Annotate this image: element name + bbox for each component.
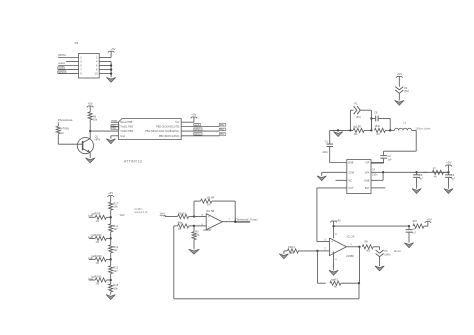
svg-text:PB2 (SCK/ADC1/T0): PB2 (SCK/ADC1/T0) [156,126,179,129]
svg-text:ISP: ISP [366,162,370,165]
svg-text:PB0 (MOSI ADV0): PB0 (MOSI ADV0) [159,135,180,138]
wire rail left corner [330,129,351,131]
svg-text:OUT: OUT [348,187,354,190]
junction pin8 [110,68,112,70]
ground -in src [279,254,288,259]
svg-text:Motor: Motor [394,249,401,253]
svg-text:Photodiode: Photodiode [58,118,73,122]
resistor R11 [109,217,119,238]
ground emitter [86,158,95,163]
ground V- [329,270,338,275]
svg-text:SCK: SCK [58,67,63,70]
ground COM [317,176,326,181]
wire PB2 SCK [181,126,219,128]
svg-text:ENB: ENB [364,179,369,182]
wire pin5 reset [58,65,78,67]
svg-text:10k R4: 10k R4 [206,197,215,200]
svg-text:NC: NC [348,179,352,182]
inductor L1 [390,121,411,131]
ground connector [107,77,116,82]
svg-text:(5V): (5V) [404,89,409,93]
wire gnd bus [110,62,112,78]
wire ISP pin [371,162,384,164]
svg-text:P1: P1 [354,101,358,105]
power +5V connector [108,47,116,52]
resistor R4 47k [201,197,236,207]
power +5V op-amp [330,219,341,227]
junction pin6 [110,64,112,66]
connector P4 body [79,53,100,78]
capacitor C5 4u7 [413,172,424,188]
wire P2 drop [398,76,400,86]
ground C6 [444,189,453,194]
wire PB1 MISO [181,130,219,132]
wire C3 branch [371,119,375,131]
ground ladder [106,295,115,300]
wire pin6 [99,65,111,67]
ground P3 [375,266,384,271]
junction +in [193,215,195,217]
wire output [222,221,250,223]
power +5V ladder [107,191,114,197]
svg-text:10k: 10k [93,117,98,121]
junction node2 [110,237,112,239]
svg-text:PB1: PB1 [220,128,225,131]
resistor R8 400 [360,241,380,253]
wire Gnd pin [111,136,119,139]
svg-text:R6a: R6a [178,222,183,225]
svg-text:4u7: 4u7 [419,177,424,180]
pin names right [145,121,180,138]
resistor R9 tap [89,213,111,223]
svg-text:ladR R9: ladR R9 [92,213,101,216]
svg-text:Reset PB5: Reset PB5 [120,121,133,124]
wire OUT pin [317,188,347,242]
svg-text:VT93N: VT93N [61,126,69,130]
svg-text:MISO: MISO [58,71,64,74]
power +5V VFB [445,161,452,173]
svg-text:+: + [331,240,333,244]
power +5V Vcc [191,113,198,119]
wire NC stub [336,179,347,181]
note divider [135,208,148,214]
wire +5V to R5 [89,106,91,112]
resistor R18 10k [109,280,119,295]
svg-text:PB0: PB0 [220,133,225,136]
net flag Lvl1 [88,277,93,280]
wire to P3 [379,247,381,250]
svg-text:+5V: +5V [427,217,432,221]
label MOSI [58,53,66,57]
wire +in from OUT [317,241,330,243]
svg-text:ladR R10: ladR R10 [92,234,103,237]
junction R1 R2 [370,129,372,131]
svg-text:Lvl3: Lvl3 [88,236,93,239]
resistor R14 4k7 [287,246,317,255]
svg-text:VFK: VFK [365,171,370,174]
wire ladder top [110,196,112,203]
wire PB3 pin [111,126,119,128]
svg-text:IC1 5B: IC1 5B [206,209,214,213]
wire C1 to pin1 [330,162,347,164]
wire Vref to R3 [165,216,172,218]
svg-text:Lvl4: Lvl4 [88,215,93,218]
svg-text:ATTINY13: ATTINY13 [124,159,142,164]
resistor R3 10k [172,212,194,218]
wire PB4 pin [90,130,118,132]
svg-text:0q0.5R: 0q0.5R [353,126,361,129]
IC U2 body [347,160,371,194]
svg-text:ENB: ENB [348,162,353,165]
wire Vcc pin [181,117,194,122]
svg-text:400: 400 [366,250,371,253]
junction C3 left [370,117,372,119]
svg-text:MOSI: MOSI [194,133,200,136]
label MOSI net [194,133,202,136]
net flag Lvl3 [88,236,93,239]
label MISO net [194,128,202,131]
resistor R10 tap [89,234,111,244]
svg-text:IC1.2A: IC1.2A [347,234,355,238]
net flag SCK [58,67,64,70]
ground rail [334,132,343,137]
label SCK net [194,123,201,126]
op-amp IC1A [324,234,354,261]
svg-text:4k7: 4k7 [113,269,118,273]
junction node4 [110,279,112,281]
wire to node1 [110,210,112,217]
svg-text:+5V: +5V [108,191,113,195]
junction C7 [408,225,410,227]
op-amp IC1B [202,209,231,232]
wire rail down C1 [329,130,331,144]
junction V+ [332,225,334,227]
junction ENB tie [382,171,384,173]
transistor Q1 NPN [77,131,100,158]
svg-text:(24V): (24V) [384,253,390,256]
junction pin10 [110,72,112,74]
resistor R6 10k [178,222,194,231]
svg-text:reset: reset [111,118,117,122]
wire R5 to collector [89,120,91,131]
connector P4 designator [75,41,79,45]
label ATTINY13 [124,159,142,164]
svg-text:−: − [331,250,333,254]
svg-text:NPN: NPN [95,137,101,141]
net flag MISO [58,71,66,74]
svg-text:10k R3: 10k R3 [178,212,187,215]
resistor R12 [109,238,119,259]
wire VFB rail [371,171,449,173]
junction -in [316,250,318,252]
net flag Lvl2 [88,257,93,260]
wire V+ rail [334,225,409,227]
svg-text:P4: P4 [75,41,79,45]
junction node3 [110,258,112,260]
resistor R2 0.05R [374,125,390,136]
junction C5 [415,171,417,173]
power +5V P2 [396,72,403,78]
wire V- pin [333,252,335,271]
ground MCU [106,139,115,144]
resistor R7 4k7 [423,168,448,179]
wire -in [194,225,206,227]
svg-text:10k: 10k [113,286,118,290]
wire R5div top [193,226,195,232]
svg-text:4u7: 4u7 [412,231,417,234]
svg-text:4k7: 4k7 [290,252,295,255]
junction node1 [110,216,112,218]
wire R5div btm [193,240,195,250]
svg-text:Lvl2: Lvl2 [88,257,93,260]
wire P3 gnd [379,257,381,266]
junction out [358,246,360,248]
svg-text:10k: 10k [113,205,118,209]
resistor R15 tap [89,255,111,265]
svg-text:+5V: +5V [88,102,93,106]
ground R5div [189,249,200,254]
wire lower-in left [174,225,178,227]
svg-text:+: + [208,215,210,219]
svg-text:PB1 (MISO AIN1 OC0B ADV1): PB1 (MISO AIN1 OC0B ADV1) [145,130,179,133]
power +5V transistor [87,102,94,108]
wire ENB tie [371,172,383,180]
label boost choke [415,128,431,131]
svg-text:1nF: 1nF [387,159,392,162]
resistor R5 10k [88,112,98,122]
svg-text:lvlR14: lvlR14 [288,246,295,249]
power +5V R17b [425,217,432,226]
wire pin9 MISO [58,73,78,75]
wire -in [318,250,330,252]
capacitor C3 [374,112,378,122]
net flag PB4 [111,127,119,130]
svg-text:(5V): (5V) [356,115,361,119]
wire +in [194,216,206,218]
net flag Threshold_Vmax [235,217,258,222]
resistor R13 [109,259,119,280]
net flag PB3 [111,124,119,127]
pin names left [120,121,133,138]
svg-text:ladR R15: ladR R15 [92,255,103,258]
wire P1 loop right [361,110,372,130]
resistor R5b 47k [192,231,200,240]
svg-text:130um choke: 130um choke [415,128,431,131]
capacitor C6 4u7 [445,172,456,188]
svg-text:Vref: Vref [160,212,165,216]
wire base [58,143,82,145]
capacitor C2 1nF [380,151,392,163]
wire P2 gnd [398,93,400,100]
label Photodiode [58,118,73,122]
wire -in gnd [284,251,287,254]
label reset [58,61,65,65]
svg-text:LM358: LM358 [203,228,211,232]
ground P2 [395,100,404,105]
svg-text:4u7: 4u7 [451,177,456,180]
label Motor [394,249,401,253]
svg-text:4k7: 4k7 [113,227,118,231]
connector P3 motor [376,250,391,257]
label Vref node [120,213,125,217]
net flag PB1 end [219,128,226,131]
svg-text:PB2: PB2 [220,124,225,127]
svg-text:SCK: SCK [194,124,199,127]
net flag Vref [160,212,167,217]
label reset net [111,118,117,122]
label C4 100n [372,169,378,177]
wire fb right [234,201,236,222]
svg-text:TimD2 PB4: TimD2 PB4 [120,130,133,133]
svg-text:PB4: PB4 [112,128,117,130]
svg-text:+5V: +5V [336,219,341,223]
capacitor C7 4u7 [406,226,417,243]
svg-text:COM: COM [348,171,354,174]
junction R7 +5V [447,171,449,173]
wire pin3 [66,61,78,63]
connector P2 [395,86,409,94]
svg-text:15uF: 15uF [375,125,381,128]
wire pin2 to +5V [99,52,111,58]
wire pin4 [99,61,111,63]
wire IC1B lower net [173,226,175,299]
junction L1 left [389,129,391,131]
resistor R17 10k [109,201,119,210]
resistor R16 tap [89,275,111,285]
junction P1 left [349,129,351,131]
junction gnd rail [337,129,339,131]
svg-text:BST: BST [365,187,370,190]
wire fb up [194,201,201,216]
wire P1 loop left [350,110,353,130]
svg-text:+5V: +5V [397,72,402,76]
ground C7 [404,243,413,248]
junction collector [89,130,91,132]
svg-text:TimD1 PB3: TimD1 PB3 [120,126,133,129]
junction output [234,221,236,223]
svg-text:Vref: Vref [120,213,125,217]
svg-text:Threshold_Vmax: Threshold_Vmax [235,217,258,221]
svg-text:LM358: LM358 [346,254,354,258]
svg-text:100n: 100n [322,151,328,154]
svg-text:+5V: +5V [191,113,196,117]
svg-text:4k7: 4k7 [113,248,118,252]
net flag Lvl4 [88,215,93,218]
junction fb [358,282,360,284]
U2 pin names [348,162,370,190]
svg-text:ladR 5: ladR 5 [331,278,339,281]
wire C2 to pin [371,162,384,164]
net flag PB2 end [219,124,226,127]
wire fb down [318,251,326,283]
wire COM gnd [322,172,347,176]
resistor R17b 4k7 [407,220,428,228]
svg-text:Cr: Cr [61,131,64,135]
svg-text:around 1.9): around 1.9) [135,211,148,214]
wire V+ pin [333,226,335,238]
net flag PB0 end [219,133,226,136]
wire L1 out [384,130,417,151]
resistor R5c 4k7 [330,278,359,288]
svg-text:+5V: +5V [110,47,115,51]
resistor R1 0.05R [350,126,371,136]
wire pin8 [99,69,111,71]
wire fb to bottom rail [174,283,359,299]
capacitor C1 100n [322,140,333,162]
connector P1 [354,101,361,119]
wire out-fb [359,247,361,283]
svg-text:R#7: R#7 [413,220,418,223]
photoresistor LDR1 [56,122,69,144]
svg-text:ladR R16: ladR R16 [92,275,103,278]
wire out [346,246,359,248]
wire C3 right [378,119,390,131]
wire pin10 [99,73,111,75]
IC U1 ATTINY13 body [119,119,182,140]
svg-text:Lvl1: Lvl1 [88,277,93,280]
svg-text:MOSI: MOSI [58,53,66,57]
wire pin7 SCK [58,69,78,71]
junction -in [193,225,195,227]
svg-text:reset: reset [58,61,65,65]
svg-text:MISO: MISO [194,128,200,131]
ground C5 [412,189,421,194]
wire reset pin [111,121,119,123]
wire BST stub [371,187,385,189]
wire PB0 MOSI [181,135,219,137]
svg-text:+5V: +5V [446,161,451,165]
svg-text:Gnd: Gnd [120,135,125,138]
svg-text:100n: 100n [372,173,378,176]
svg-text:4k7: 4k7 [334,285,339,288]
wire pin1 MOSI [58,57,78,59]
